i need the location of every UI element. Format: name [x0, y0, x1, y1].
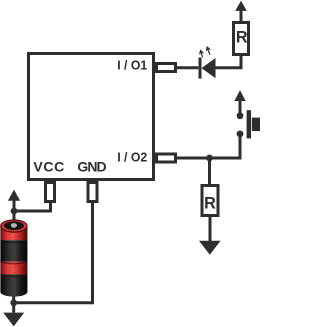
- svg-text:I / O2: I / O2: [117, 149, 147, 164]
- svg-text:R: R: [236, 28, 248, 46]
- svg-text:VCC: VCC: [33, 159, 64, 175]
- svg-text:R: R: [204, 195, 216, 213]
- svg-text:GND: GND: [77, 159, 106, 175]
- svg-text:I / O1: I / O1: [117, 58, 147, 73]
